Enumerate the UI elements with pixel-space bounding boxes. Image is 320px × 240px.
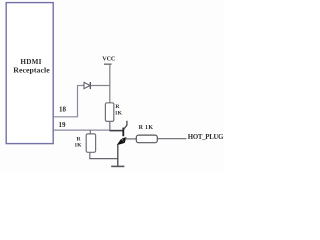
- wire R3 to HOT_PLUG: [157, 138, 186, 140]
- diode D1: [84, 82, 90, 88]
- wire diode anode: [77, 85, 84, 87]
- resistor R1 1K (pull-up): [105, 103, 113, 122]
- svg-text:HOT_PLUG: HOT_PLUG: [188, 134, 224, 141]
- pin 18 wire: [54, 86, 78, 117]
- transistor Q1 emitter arrow: [122, 137, 126, 142]
- svg-text:Receptacle: Receptacle: [13, 65, 50, 74]
- wire VCC to resistor: [109, 65, 111, 103]
- svg-text:1K: 1K: [115, 110, 123, 116]
- svg-text:R 1K: R 1K: [139, 125, 154, 131]
- svg-text:18: 18: [59, 105, 67, 113]
- wire emitter to R3: [125, 138, 136, 140]
- wire R1 bottom lead: [109, 121, 111, 130]
- svg-text:1K: 1K: [74, 143, 82, 149]
- pin 19 wire: [54, 129, 111, 131]
- ground bar: [111, 165, 124, 167]
- HDMI receptacle J1 box: [6, 3, 53, 144]
- wire node to base: [110, 130, 123, 132]
- wire bottom to emitter: [89, 158, 118, 160]
- svg-text:19: 19: [59, 121, 67, 129]
- transistor Q1 collector: [124, 121, 127, 130]
- svg-text:VCC: VCC: [102, 55, 115, 62]
- resistor R3 1K body: [136, 135, 157, 143]
- transistor Q1 base bar: [122, 128, 124, 137]
- wire diode cathode to VCC line: [91, 85, 111, 87]
- resistor R2 1K body: [86, 134, 95, 152]
- wire R2 bottom lead: [89, 152, 91, 158]
- transistor emitter wire down: [117, 145, 119, 167]
- resistor R2 1K (pull-down) top lead: [89, 130, 91, 134]
